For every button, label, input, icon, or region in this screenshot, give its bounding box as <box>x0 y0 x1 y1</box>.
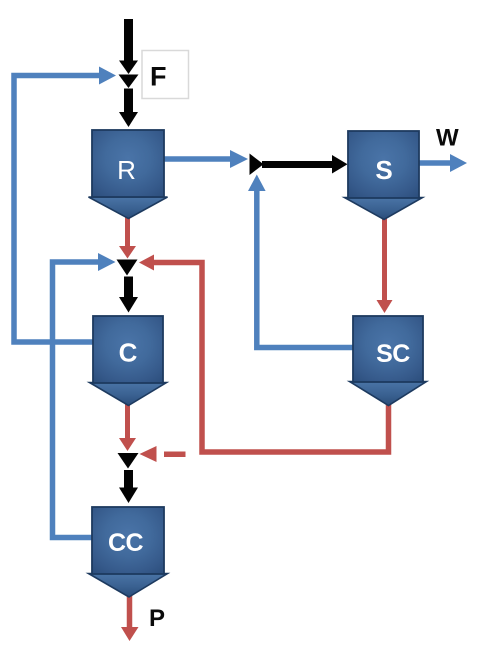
wire: black arrow C junction to C <box>119 277 138 313</box>
wire: black arrow CC junction to CC <box>119 470 138 503</box>
block R <box>89 130 168 219</box>
svg-text:S: S <box>375 155 392 185</box>
block SC <box>350 316 427 406</box>
wire: blue recycle C to F junction <box>14 67 116 343</box>
wire: blue arrow S to W <box>419 154 467 172</box>
wire: red arrow S to SC <box>377 214 393 313</box>
svg-text:C: C <box>119 338 138 368</box>
svg-text:W: W <box>436 125 459 152</box>
node CC junction <box>118 453 139 469</box>
wire: blue arrow R to mid junction <box>164 150 248 168</box>
svg-text:R: R <box>117 155 136 185</box>
wire: blue recycle CC to C junction <box>53 253 116 538</box>
svg-text:P: P <box>149 605 165 632</box>
node mid junction (R/SC merge) <box>250 154 264 176</box>
block C <box>90 316 167 406</box>
block CC <box>89 507 168 597</box>
wire: red dashed branch SC to CC junction <box>140 446 186 462</box>
svg-text:F: F <box>150 62 167 92</box>
svg-text:SC: SC <box>376 340 410 368</box>
label F box <box>142 51 189 99</box>
node C junction <box>117 260 138 276</box>
wire: black feed arrow into F junction <box>119 19 138 74</box>
svg-text:CC: CC <box>108 529 144 557</box>
wire: red recycle SC to C junction <box>139 255 389 453</box>
wire: red arrow C to CC junction <box>119 402 136 451</box>
wire: black arrow mid junction to S <box>262 155 348 174</box>
wire: black arrow F junction to R <box>119 89 138 128</box>
node F junction <box>119 75 139 89</box>
wire: red product arrow CC to P <box>121 592 139 641</box>
wire: red arrow R to C junction <box>119 214 136 259</box>
block S <box>345 131 423 220</box>
wire: blue arrow SC to mid junction <box>248 175 353 348</box>
